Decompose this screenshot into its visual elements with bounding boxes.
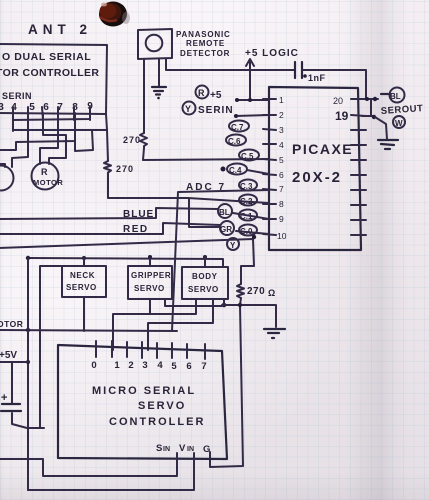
svg-text:8: 8 xyxy=(279,199,284,209)
svg-text:SERVO: SERVO xyxy=(134,284,165,293)
svg-text:SERIN: SERIN xyxy=(198,105,234,116)
svg-text:C.6: C.6 xyxy=(228,137,241,146)
svg-text:W: W xyxy=(395,119,403,128)
svg-text:Y: Y xyxy=(185,104,191,114)
svg-text:7: 7 xyxy=(201,361,206,372)
svg-text:19: 19 xyxy=(335,109,349,123)
svg-text:V: V xyxy=(179,443,186,454)
svg-text:Y: Y xyxy=(230,241,236,250)
svg-text:1: 1 xyxy=(114,360,120,371)
svg-text:GR: GR xyxy=(220,225,232,234)
svg-text:C.5: C.5 xyxy=(241,152,254,161)
svg-text:4: 4 xyxy=(279,140,284,150)
svg-text:PANASONIC: PANASONIC xyxy=(176,30,231,39)
svg-text:6: 6 xyxy=(43,102,49,113)
svg-text:GRIPPER: GRIPPER xyxy=(131,271,171,280)
svg-text:IN: IN xyxy=(163,446,170,453)
svg-text:270: 270 xyxy=(116,164,134,174)
svg-text:MOTOR: MOTOR xyxy=(33,178,63,187)
svg-text:S: S xyxy=(156,443,162,454)
svg-text:3: 3 xyxy=(142,360,147,371)
svg-text:NECK: NECK xyxy=(70,271,95,280)
svg-text:REMOTE: REMOTE xyxy=(186,39,225,48)
svg-text:BL: BL xyxy=(219,208,230,217)
svg-text:O DUAL SERIAL: O DUAL SERIAL xyxy=(2,51,91,63)
svg-text:BL: BL xyxy=(390,92,401,101)
svg-text:C.7: C.7 xyxy=(231,123,244,132)
svg-text:9: 9 xyxy=(279,214,284,224)
svg-text:270: 270 xyxy=(123,135,141,145)
svg-text:R: R xyxy=(41,167,48,177)
svg-text:20X-2: 20X-2 xyxy=(292,169,342,186)
svg-text:C.2: C.2 xyxy=(240,197,253,206)
svg-text:SEROUT: SEROUT xyxy=(380,103,423,117)
svg-text:Ω: Ω xyxy=(268,288,275,298)
svg-text:270: 270 xyxy=(247,286,265,297)
svg-text:+5 LOGIC: +5 LOGIC xyxy=(245,48,299,59)
svg-text:1: 1 xyxy=(279,95,284,105)
svg-text:CONTROLLER: CONTROLLER xyxy=(109,416,205,428)
svg-text:TOR CONTROLLER: TOR CONTROLLER xyxy=(0,67,99,79)
svg-text:G: G xyxy=(203,444,210,455)
svg-text:1nF: 1nF xyxy=(308,73,326,83)
svg-text:SERVO: SERVO xyxy=(138,400,186,412)
svg-text:IN: IN xyxy=(187,446,194,453)
svg-text:6: 6 xyxy=(186,361,191,372)
svg-text:C.4: C.4 xyxy=(229,166,242,175)
svg-text:SERIN: SERIN xyxy=(2,91,32,101)
svg-text:3: 3 xyxy=(0,102,4,113)
svg-text:BODY: BODY xyxy=(192,272,218,281)
svg-text:5: 5 xyxy=(171,361,177,372)
svg-text:ANT 2: ANT 2 xyxy=(28,22,92,37)
svg-text:+: + xyxy=(1,392,7,404)
svg-text:2: 2 xyxy=(128,360,133,371)
svg-text:10: 10 xyxy=(277,231,287,241)
svg-text:3: 3 xyxy=(279,125,284,135)
svg-text:20: 20 xyxy=(333,96,343,106)
svg-text:+5: +5 xyxy=(210,90,222,101)
svg-text:+5V: +5V xyxy=(0,350,17,361)
svg-text:6: 6 xyxy=(279,170,284,180)
svg-text:5: 5 xyxy=(29,102,35,113)
svg-text:R: R xyxy=(198,88,205,98)
svg-text:5: 5 xyxy=(279,155,284,165)
svg-text:SERVO: SERVO xyxy=(66,283,97,292)
svg-text:2: 2 xyxy=(279,110,284,120)
svg-text:DETECTOR: DETECTOR xyxy=(180,49,230,58)
svg-text:SERVO: SERVO xyxy=(188,285,219,294)
svg-text:4: 4 xyxy=(157,360,163,371)
svg-text:7: 7 xyxy=(279,184,284,194)
svg-text:0: 0 xyxy=(91,360,96,371)
svg-text:PICAXE: PICAXE xyxy=(292,141,353,157)
svg-text:OTOR: OTOR xyxy=(0,319,23,329)
svg-text:MICRO SERIAL: MICRO SERIAL xyxy=(92,385,196,397)
